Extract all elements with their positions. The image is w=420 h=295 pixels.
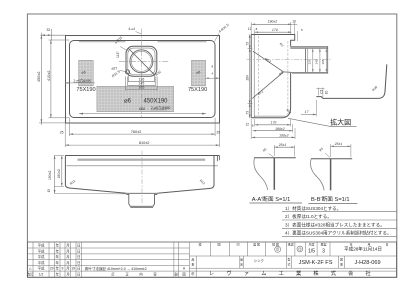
svg-text:尺度: 尺度 [308,241,314,246]
section: floor slope upper [253,51,284,72]
svg-text:3）表面仕様は#320相当プレスしたままとする。: 3）表面仕様は#320相当プレスしたままとする。 [285,221,385,228]
svg-text:月: 月 [66,244,69,248]
title block: stamp circle 2 [297,246,303,252]
section: spud dims 136/145/165 [313,49,327,73]
section: centerline [247,59,331,61]
svg-text:450X190: 450X190 [144,98,169,104]
title block: outer box [27,242,396,277]
plan: pad 75x190 left [79,60,94,86]
svg-text:29: 29 [50,267,54,271]
svg-text:25: 25 [217,131,221,135]
section: drain spud top bar [291,46,328,48]
svg-text:検 図: 検 図 [272,241,279,246]
svg-text:⌀6: ⌀6 [124,98,132,104]
svg-text:改訂: 改訂 [27,272,34,277]
title block: hinmei vertical label [191,257,343,267]
svg-text:1/2: 1/2 [39,273,44,277]
svg-text:⌀6: ⌀6 [81,71,85,75]
front: left dim 190 [54,156,56,194]
plan: drain circle inner [131,51,151,71]
plan: left dim 410 [50,40,52,118]
section: floor slope lower [252,72,283,99]
plan: overflow hole [125,70,129,74]
svg-text:平成: 平成 [38,254,45,259]
title block: revision footer row [27,272,186,277]
plan: drain width dims 136/145/165 [126,74,157,90]
svg-text:△: △ [29,267,32,271]
front: back wall lower edge [67,165,218,167]
svg-text:4）裏面はSUS304用アクリル系制振材貼付とする。: 4）裏面はSUS304用アクリル系制振材貼付とする。 [285,230,392,237]
svg-text:145: 145 [315,59,319,64]
svg-text:73: 73 [245,111,249,115]
title block: revision rows text [38,243,81,265]
B-B: break curve [311,159,325,190]
B-B: dim 25 [331,145,351,147]
svg-text:2-⌀6穴@660: 2-⌀6穴@660 [151,105,171,110]
svg-text:B-B'断面 S=1/1: B-B'断面 S=1/1 [311,195,350,203]
drawing frame [27,14,396,277]
A-A: wall [273,158,275,190]
plan: bottom dim 760 [69,118,71,136]
svg-text:410±2: 410±2 [47,70,51,81]
front: left wall and bottom slope [65,156,126,194]
svg-text:年: 年 [56,248,60,253]
svg-text:2）板厚はt1.0とする。: 2）板厚はt1.0とする。 [285,213,332,220]
svg-text:番: 番 [191,262,194,267]
B-B: wall [330,159,332,191]
svg-text:平成: 平成 [38,266,45,271]
front: right wall and bottom slope [157,156,214,194]
svg-text:25±1: 25±1 [278,143,286,147]
svg-text:660: 660 [139,107,146,111]
front: right rim lip [216,156,218,162]
plan: pad 75x190 right [191,60,205,86]
plan: drain centerline horizontal [119,60,170,62]
svg-text:160±2: 160±2 [57,169,61,179]
svg-text:日: 日 [77,267,80,271]
svg-text:内: 内 [139,272,142,277]
svg-text:264: 264 [245,75,249,81]
svg-text:113°: 113° [116,51,120,58]
svg-text:2-⌀6穴@660: 2-⌀6穴@660 [74,78,92,83]
svg-text:月: 月 [66,261,69,265]
A-A: break curve [254,158,268,190]
svg-text:印: 印 [298,246,301,251]
svg-text:810±2: 810±2 [139,141,150,145]
svg-text:シンク: シンク [254,258,264,263]
front: left dim 160 [61,156,63,187]
section: leader to detail [288,118,330,126]
plan: drain centerline vertical [141,29,143,118]
svg-text:日: 日 [77,261,80,265]
section: left edge [250,35,252,118]
svg-text:9: 9 [62,267,64,271]
section: bottom edge w/ corner radius [251,73,290,118]
svg-text:平成: 平成 [38,260,45,265]
svg-text:4-⌀4: 4-⌀4 [129,27,136,31]
svg-text:日: 日 [77,249,80,253]
svg-text:レヴァム工業株式会社: レヴァム工業株式会社 [209,269,383,277]
svg-text:450±2: 450±2 [37,71,41,82]
svg-text:⌀6: ⌀6 [196,71,200,75]
svg-text:平成: 平成 [38,248,45,253]
plan: drain circle outer [130,50,153,73]
front: drain boss [126,193,157,206]
svg-text:月: 月 [66,267,69,271]
svg-text:拡大図: 拡大図 [330,117,351,126]
svg-text:165: 165 [321,59,325,64]
title block: revision row 5 [29,266,186,271]
front: drain centerline [141,151,143,205]
svg-text:136: 136 [308,59,312,64]
svg-text:32: 32 [47,28,51,32]
plan: bowl rim rounded rect [70,41,216,118]
svg-text:月: 月 [66,273,69,277]
plan: drain square outer [126,46,157,76]
svg-text:日: 日 [77,255,80,259]
plan: pad 450x190 center [97,86,174,111]
svg-text:再製: 再製 [320,241,326,246]
svg-text:名: 名 [240,262,243,267]
svg-text:日: 日 [385,242,388,246]
svg-text:品: 品 [240,258,243,262]
section: left dims 73/264/73 [249,35,251,118]
svg-text:1）材質はSUS304とする。: 1）材質はSUS304とする。 [285,205,341,212]
title block: header labels [198,241,388,246]
svg-text:180±2: 180±2 [275,127,285,131]
section: bottom dim 190 [252,136,295,138]
svg-text:番: 番 [340,262,343,267]
svg-text:25±1: 25±1 [334,142,342,146]
plan: bottom dim 810 [64,123,66,147]
svg-text:図: 図 [217,242,220,246]
svg-text:19: 19 [71,267,75,271]
svg-text:15: 15 [47,189,51,193]
svg-text:年: 年 [56,260,60,265]
svg-text:A-A'断面 S=1/1: A-A'断面 S=1/1 [252,195,291,203]
svg-text:承認: 承認 [288,241,294,246]
section: bottom ext lines [251,119,295,139]
svg-text:3: 3 [322,249,325,255]
svg-text:型: 型 [288,257,291,262]
detail: dim 17 [301,114,316,116]
plan: drain square inner [128,48,155,74]
section: drain spud body [291,46,328,73]
plan: rim inner top edge [79,41,126,43]
svg-text:J-H28-069: J-H28-069 [354,260,380,266]
svg-text:日: 日 [77,244,80,248]
svg-text:12: 12 [246,123,250,127]
front: rim top line [65,155,219,157]
svg-text:年: 年 [56,254,60,259]
section: hidden lines [257,36,259,116]
svg-text:製 図: 製 図 [253,241,260,246]
section: bottom dim 170 [255,124,291,126]
svg-text:印: 印 [276,247,279,252]
svg-text:JSM-K-2F FS: JSM-K-2F FS [299,260,333,266]
svg-text:73: 73 [245,42,249,46]
A-A: dim 25 [274,146,294,148]
plan: drain diagonal [128,48,155,75]
svg-text:190±2: 190±2 [48,170,52,180]
svg-text:年: 年 [56,266,60,271]
svg-text:75X190: 75X190 [188,87,207,93]
title block: revision table grid [27,242,396,277]
svg-text:図: 図 [340,258,343,262]
front: pad bar seen through [78,159,206,161]
section: top dim extension lines [251,22,297,41]
svg-text:760±2: 760±2 [131,130,142,134]
plan: left dim 450 [40,33,42,125]
svg-text:年: 年 [56,243,60,248]
svg-text:10: 10 [324,91,328,95]
svg-text:75X190: 75X190 [76,87,95,93]
svg-text:印: 印 [236,241,239,246]
section: top dim 190 [252,23,292,25]
svg-text:190±2: 190±2 [267,20,277,24]
svg-text:月: 月 [66,249,69,253]
svg-text:165: 165 [138,86,144,90]
svg-text:170: 170 [272,28,279,32]
svg-text:品: 品 [191,258,194,262]
title block: right part grid [189,242,396,277]
svg-text:平成: 平成 [38,243,45,248]
A-A: top surface [254,157,296,159]
plan: hole spacing dim line 660 [79,113,206,115]
svg-text:検: 検 [198,241,201,246]
section: top dim 170 [255,31,292,33]
svg-text:平成28年11月14日: 平成28年11月14日 [344,245,382,252]
svg-text:脚サ寸法誤記 410mm+2-0 → 410mm±2: 脚サ寸法誤記 410mm+2-0 → 410mm±2 [85,266,147,271]
B-B: top surface [311,158,352,160]
svg-text:式: 式 [288,262,291,267]
svg-text:1/5: 1/5 [308,249,315,255]
svg-text:170: 170 [270,121,277,125]
section: top edge and lip [251,35,295,47]
svg-text:190±2: 190±2 [279,133,289,137]
plan: sink outer rect [66,36,220,124]
svg-text:25: 25 [60,130,64,134]
section: bottom dim 180 [253,130,293,132]
detail: rim profile [316,64,387,98]
title block: stamp circle 1 [275,246,281,252]
svg-text:日: 日 [77,273,80,277]
svg-text:10: 10 [292,20,296,24]
svg-text:月: 月 [66,255,69,259]
